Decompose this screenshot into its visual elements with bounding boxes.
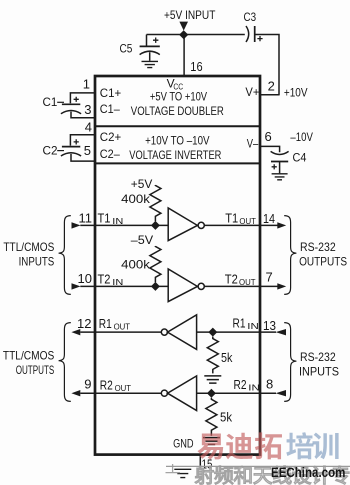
svg-text:400k: 400k — [121, 192, 151, 206]
svg-text:EEChina.com: EEChina.com — [271, 465, 345, 480]
svg-text:IN: IN — [248, 383, 259, 393]
capacitor C5 — [146, 35, 148, 46]
C2 tick — [57, 150, 64, 152]
svg-text:+10V: +10V — [284, 85, 308, 99]
svg-text:R2: R2 — [234, 378, 247, 392]
svg-text:C3: C3 — [244, 10, 257, 24]
wire T1 output — [204, 224, 277, 226]
svg-text:7: 7 — [266, 270, 273, 285]
node VCC junction — [179, 30, 188, 39]
watermark red CJK — [197, 434, 223, 460]
svg-text:VOLTAGE INVERTER: VOLTAGE INVERTER — [129, 148, 221, 162]
svg-text:C2+: C2+ — [100, 132, 122, 144]
svg-text:VOLTAGE DOUBLER: VOLTAGE DOUBLER — [131, 104, 224, 118]
wire pin 16 — [183, 35, 185, 77]
svg-text:5k: 5k — [221, 351, 233, 365]
arrow pin 13 — [276, 329, 286, 335]
svg-text:IN: IN — [112, 216, 123, 226]
svg-text:400k: 400k — [121, 257, 151, 271]
brace RS-232 outputs — [284, 216, 296, 295]
svg-text:12: 12 — [77, 316, 91, 331]
svg-text:14: 14 — [263, 211, 275, 226]
wire pin 6 — [260, 146, 280, 152]
capacitor C4 — [271, 151, 289, 154]
arrow pin 10 — [72, 283, 81, 289]
wire R2 output — [80, 392, 161, 394]
svg-text:T1: T1 — [98, 212, 111, 226]
divider 2 — [95, 162, 260, 164]
svg-text:INPUTS: INPUTS — [299, 364, 339, 378]
ground C5 — [142, 61, 159, 67]
capacitor C2 — [70, 135, 95, 146]
wire R2 input — [197, 392, 276, 394]
capacitor C3 — [246, 26, 249, 42]
svg-text:OUT: OUT — [239, 216, 256, 226]
svg-text:TTL/CMOS: TTL/CMOS — [3, 240, 54, 254]
svg-text:OUTPUTS: OUTPUTS — [299, 254, 347, 268]
svg-text:OUT: OUT — [114, 322, 131, 332]
svg-text:T2: T2 — [98, 273, 111, 287]
svg-text:R2: R2 — [100, 378, 113, 392]
svg-text:C1: C1 — [43, 95, 58, 109]
node VCC input arrow — [179, 22, 188, 31]
svg-text:–5V: –5V — [131, 233, 153, 247]
inverter R1 — [168, 315, 197, 350]
svg-text:C2: C2 — [43, 144, 58, 158]
wire pin 2 — [260, 94, 280, 96]
wire T1 input — [80, 224, 168, 226]
resistor R4 5k — [206, 398, 217, 436]
svg-text:TTL/CMOS: TTL/CMOS — [3, 349, 54, 363]
op-amp U1 box — [95, 76, 260, 455]
wire top rail — [147, 34, 245, 36]
watermark partial mark — [166, 464, 181, 473]
svg-text:IN: IN — [112, 277, 123, 287]
inverter T2 — [168, 269, 197, 302]
svg-text:9: 9 — [84, 377, 91, 392]
svg-text:8: 8 — [266, 377, 273, 392]
svg-text:2: 2 — [268, 79, 275, 94]
arrow pin 8 — [276, 390, 286, 396]
svg-text:GND: GND — [173, 439, 194, 451]
svg-text:+10V TO –10V: +10V TO –10V — [145, 133, 209, 147]
wire T2 output — [204, 285, 277, 287]
svg-text:10: 10 — [78, 271, 92, 286]
ground C4 — [272, 174, 288, 180]
node R1 — [208, 328, 217, 337]
brace TTL/CMOS outputs — [59, 323, 71, 402]
svg-text:–10V: –10V — [290, 130, 313, 144]
svg-text:RS-232: RS-232 — [300, 350, 336, 364]
svg-text:+5V: +5V — [131, 177, 153, 191]
svg-text:C5: C5 — [120, 42, 133, 56]
ground R3 — [204, 376, 221, 383]
svg-text:16: 16 — [190, 59, 202, 74]
svg-text:IN: IN — [247, 321, 258, 331]
svg-text:V+: V+ — [245, 85, 259, 99]
svg-text:T1: T1 — [225, 212, 238, 226]
wire T2 input — [80, 285, 168, 287]
svg-text:6: 6 — [265, 129, 272, 144]
inverter T1 — [168, 208, 197, 241]
svg-text:3: 3 — [84, 102, 91, 117]
node T1 — [151, 221, 160, 230]
svg-text:OUTPUTS: OUTPUTS — [16, 363, 55, 377]
resistor R1 400k — [150, 185, 161, 221]
wire R1 output — [80, 331, 161, 333]
watermark gray CJK outline — [195, 466, 213, 484]
svg-text:R1: R1 — [233, 317, 246, 331]
wire C3 to V+ — [255, 35, 279, 95]
svg-text:C1–: C1– — [100, 104, 121, 116]
arrow pin 7 — [277, 283, 286, 289]
svg-text:C2–: C2– — [100, 149, 121, 161]
svg-text:11: 11 — [79, 210, 93, 225]
wire R1 input — [197, 331, 276, 333]
arrow pin 14 — [277, 222, 286, 228]
capacitor C1 — [70, 93, 95, 103]
svg-text:OUT: OUT — [239, 277, 256, 287]
svg-text:RS-232: RS-232 — [300, 240, 336, 254]
arrow pin 12 — [71, 329, 80, 335]
wire pin 15 — [199, 455, 201, 469]
brace RS-232 inputs — [284, 323, 296, 402]
watermark underline — [166, 465, 350, 467]
svg-text:4: 4 — [85, 120, 92, 135]
node R2 — [207, 389, 216, 398]
svg-text:V–: V– — [247, 137, 259, 151]
arrow pin 9 — [71, 390, 80, 396]
svg-text:13: 13 — [263, 318, 276, 333]
svg-text:5: 5 — [84, 143, 91, 158]
C1 tick — [57, 101, 64, 103]
svg-text:C1+: C1+ — [100, 88, 122, 100]
svg-text:INPUTS: INPUTS — [19, 254, 55, 268]
resistor R3 5k — [207, 337, 218, 374]
svg-text:R1: R1 — [99, 317, 112, 331]
ground R4 — [203, 438, 220, 445]
divider 1 — [95, 125, 260, 127]
svg-text:+5V INPUT: +5V INPUT — [164, 8, 216, 22]
resistor R2 400k — [150, 246, 161, 282]
svg-text:C4: C4 — [293, 150, 307, 164]
node T2 — [151, 282, 160, 291]
svg-text:5k: 5k — [220, 411, 233, 425]
brace TTL/CMOS inputs — [59, 216, 71, 295]
svg-text:T2: T2 — [225, 273, 238, 287]
svg-text:+5V TO +10V: +5V TO +10V — [150, 90, 207, 104]
svg-text:OUT: OUT — [115, 383, 132, 393]
inverter R2 — [168, 376, 197, 411]
ground pin 15 — [174, 469, 191, 477]
svg-text:1: 1 — [83, 77, 90, 92]
arrow pin 11 — [72, 222, 81, 228]
